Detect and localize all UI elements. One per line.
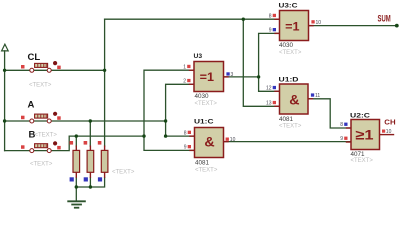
- svg-text:=1: =1: [285, 20, 299, 34]
- switch CL: [21, 52, 61, 88]
- pin 11: [308, 98, 313, 99]
- wire U3:C output to SUM: [309, 25, 397, 27]
- node SUM terminal dot: [395, 24, 399, 28]
- junction ground bus R1: [75, 185, 78, 188]
- wire U1:C output to U2:C pin 9: [224, 141, 352, 143]
- svg-text:CL: CL: [28, 52, 41, 63]
- wire CL row: [5, 69, 105, 71]
- resistor R1: [70, 141, 80, 182]
- svg-text:U3:C: U3:C: [279, 2, 298, 9]
- svg-text:8: 8: [340, 122, 343, 128]
- pin 13: [274, 106, 279, 107]
- junction ground bus R2: [89, 185, 92, 188]
- svg-text:<TEXT>: <TEXT>: [35, 133, 58, 139]
- switch A: [21, 100, 61, 139]
- svg-text:8: 8: [269, 13, 272, 19]
- XOR gate U3 (4030): [183, 53, 233, 107]
- wire R1 top: [75, 136, 77, 146]
- junction A-R2 branch: [89, 119, 92, 122]
- pin 3: [224, 76, 229, 77]
- svg-text:<TEXT>: <TEXT>: [195, 101, 218, 107]
- wire net A vertical to U3 pin 2 and U1:C pin 8: [166, 84, 195, 136]
- AND gate U1:D (4081): [266, 77, 320, 130]
- svg-text:12: 12: [266, 86, 272, 92]
- svg-text:&: &: [289, 92, 299, 108]
- svg-text:U1:D: U1:D: [279, 77, 299, 84]
- svg-text:11: 11: [315, 93, 320, 99]
- svg-text:=1: =1: [200, 70, 214, 84]
- wire R2 top: [89, 121, 91, 146]
- switch B: [21, 130, 61, 168]
- svg-text:1: 1: [183, 64, 186, 70]
- svg-text:3: 3: [231, 72, 234, 78]
- svg-text:<TEXT>: <TEXT>: [279, 124, 302, 130]
- wire left power rail: [4, 51, 6, 151]
- junction CL net to U1:D pin 13: [242, 18, 245, 21]
- svg-text:≥1: ≥1: [355, 128, 374, 143]
- svg-text:<TEXT>: <TEXT>: [195, 168, 218, 174]
- pin 10: [380, 134, 395, 135]
- resistor R3: [98, 141, 135, 182]
- OR gate U2:C (4071): [340, 112, 394, 164]
- junction net B vertical: [142, 134, 145, 137]
- svg-text:2: 2: [183, 79, 186, 85]
- svg-text:4030: 4030: [195, 93, 210, 100]
- pin 8: [189, 135, 194, 136]
- svg-text:U1:C: U1:C: [194, 118, 214, 125]
- svg-text:4030: 4030: [279, 42, 294, 49]
- pin 10: [309, 25, 314, 26]
- pin 8: [274, 19, 279, 20]
- svg-text:<TEXT>: <TEXT>: [279, 50, 302, 56]
- junction rail-A: [3, 119, 6, 122]
- svg-text:9: 9: [340, 136, 343, 142]
- svg-text:4081: 4081: [279, 116, 294, 123]
- svg-text:<TEXT>: <TEXT>: [30, 162, 53, 168]
- XOR gate U3:C (4030): [269, 2, 322, 56]
- pin 8: [346, 127, 351, 128]
- junction net A to U1:C pin 8: [164, 134, 167, 137]
- pin 2: [189, 84, 194, 85]
- pin 9: [274, 33, 279, 34]
- svg-text:13: 13: [266, 101, 272, 107]
- svg-text:10: 10: [386, 129, 392, 135]
- pin 9: [189, 150, 194, 151]
- svg-text:A: A: [28, 100, 35, 111]
- svg-text:4081: 4081: [195, 160, 210, 167]
- svg-text:SUM: SUM: [378, 13, 391, 24]
- wire resistor bottoms to ground bus: [76, 178, 104, 201]
- wire U1:D output to U2:C pin 8: [308, 99, 351, 128]
- power arrow: [2, 44, 9, 51]
- svg-text:<TEXT>: <TEXT>: [29, 82, 52, 88]
- junction net A vertical: [164, 119, 167, 122]
- wire branch to U1:D pin 13: [243, 19, 279, 106]
- svg-text:U3: U3: [194, 53, 203, 60]
- junction net B to R1: [75, 134, 78, 137]
- svg-text:4071: 4071: [351, 151, 366, 158]
- svg-text:U2:C: U2:C: [350, 112, 370, 119]
- svg-text:10: 10: [230, 137, 236, 143]
- svg-text:10: 10: [316, 20, 322, 26]
- svg-text:&: &: [204, 134, 214, 150]
- junction U3 output to U3:C pin 9 / U1:D pin 12: [257, 75, 260, 78]
- wire net B vertical to U3 pin 1 and U1:C pin 9: [144, 70, 195, 150]
- wire CL vertical to R3: [104, 19, 106, 146]
- pin 12: [274, 91, 279, 92]
- wire U3 output to mid vertical: [224, 76, 259, 78]
- pin 1: [189, 70, 194, 71]
- svg-text:8: 8: [184, 130, 187, 136]
- resistor R2: [84, 141, 94, 182]
- svg-text:CH: CH: [384, 117, 395, 126]
- pin 9: [346, 141, 351, 142]
- wire B row: [5, 136, 144, 151]
- svg-text:<TEXT>: <TEXT>: [351, 158, 374, 164]
- junction rail-CL: [3, 69, 6, 72]
- wire top CL to U3:C pin 8: [105, 18, 280, 20]
- svg-text:B: B: [29, 130, 36, 141]
- svg-text:<TEXT>: <TEXT>: [112, 170, 135, 176]
- wire mid vertical to U3:C pin 9 and U1:D pin 12: [259, 33, 280, 91]
- wire A row: [5, 120, 166, 122]
- pin 10: [224, 141, 229, 142]
- ground: [68, 201, 85, 207]
- AND gate U1:C (4081): [184, 118, 236, 173]
- svg-text:9: 9: [184, 145, 187, 151]
- junction CL-R3 branch: [103, 69, 106, 72]
- svg-text:9: 9: [269, 28, 272, 34]
